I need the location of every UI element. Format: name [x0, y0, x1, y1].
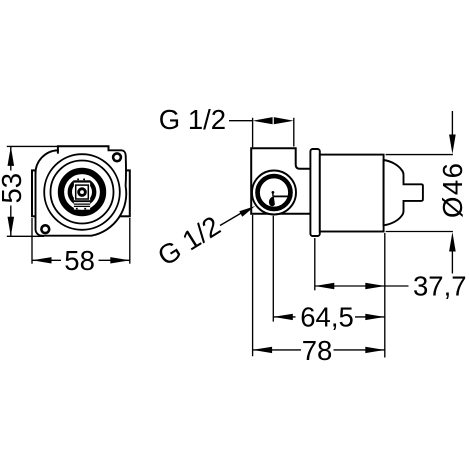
dimension 58: arrow right — [110, 257, 130, 263]
side view: port center detail — [273, 195, 288, 197]
side view: housing end cap and spindle — [384, 160, 423, 225]
dimension 78: dimension line — [253, 349, 301, 351]
dimension 64,5: dimension line — [273, 316, 295, 318]
dimension 37,7: arrow right — [365, 283, 385, 289]
dimension 37,7: extension line — [314, 238, 316, 290]
side view: inlet port outer circle — [252, 171, 296, 215]
front view: cartridge top clips — [77, 179, 79, 181]
side view: wall flange — [310, 149, 319, 236]
dimension Ø46: extension lines — [386, 154, 453, 156]
dimension G 1/2 lower: leader arrow — [239, 206, 255, 217]
side view: cartridge housing cylinder — [320, 155, 384, 232]
front view: concealed mounting box behind plate — [32, 170, 130, 216]
front view: valve body tab above plate — [58, 146, 109, 153]
svg-text:78: 78 — [302, 335, 333, 366]
dimension G 1/2 top: double arrow — [253, 117, 273, 124]
front view: cartridge bottom lines — [74, 200, 90, 202]
dimension G 1/2 top: extension lines — [252, 118, 254, 148]
dimension 53: arrow up — [8, 146, 15, 166]
shared right extension line — [384, 233, 386, 358]
front view: screw hole top-right — [113, 153, 121, 161]
front view: escutcheon plate outline — [35, 150, 126, 235]
svg-text:53: 53 — [0, 173, 27, 204]
front view: screw hole bottom-left — [41, 225, 49, 233]
front view: cartridge body mask — [74, 177, 90, 209]
dimension 58: extension lines — [31, 218, 33, 264]
dimension Ø46: dimension line bottom with arrow up — [449, 232, 456, 252]
dimension 37,7: arrow left — [315, 283, 335, 289]
front view: cartridge stem circle — [77, 187, 87, 197]
dimension 53: arrow down — [8, 217, 15, 237]
front view: plate edge hidden behind body tab — [59, 149, 108, 152]
front view: cartridge bottom clips — [76, 208, 78, 210]
front view: inner trim ring — [51, 161, 114, 224]
dimension 78: extension line — [252, 215, 254, 356]
dimension 58: arrow left — [32, 257, 52, 263]
svg-text:64,5: 64,5 — [300, 302, 354, 333]
dimension 64,5: arrow right — [365, 314, 385, 320]
dimension 78: arrow right — [365, 347, 385, 353]
dimension 78: arrow left — [253, 347, 273, 353]
dimension G 1/2 lower: leader line — [220, 212, 243, 226]
front view: cartridge collar ring — [70, 180, 94, 204]
dimension 64,5: extension line (port axis) — [272, 216, 274, 322]
side view: inlet port thread ring — [258, 176, 291, 209]
front view: cartridge square — [76, 185, 89, 199]
front view: black retaining ring — [61, 171, 103, 213]
side view: valve body — [251, 148, 310, 214]
dimension 64,5: arrow left — [273, 314, 293, 320]
dimension 53: extension lines — [7, 145, 58, 147]
svg-text:Ø46: Ø46 — [437, 162, 468, 218]
dimension 58: dimension line — [32, 259, 61, 261]
dimension G 1/2 top: leader line — [229, 120, 253, 122]
dimension 37,7: dimension line — [315, 285, 409, 287]
front view: outer trim ring — [44, 154, 120, 230]
dimension 53: dimension line — [10, 146, 12, 170]
svg-text:G 1/2: G 1/2 — [159, 104, 226, 135]
svg-text:37,7: 37,7 — [413, 270, 467, 301]
dimension Ø46: dimension line top with arrow down — [451, 111, 453, 143]
svg-text:58: 58 — [64, 245, 95, 276]
front view: cartridge top bar — [74, 180, 90, 182]
